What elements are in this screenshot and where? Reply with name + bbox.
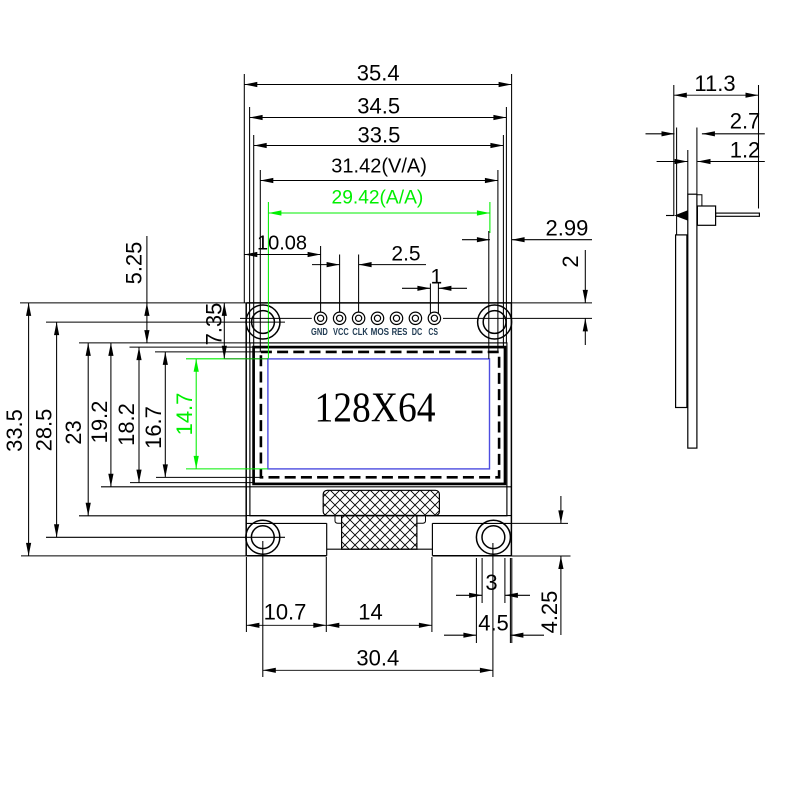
dimension 2.7: [646, 109, 765, 235]
dimension 7.35: [202, 303, 227, 359]
svg-text:18.2: 18.2: [114, 403, 139, 446]
svg-text:35.4: 35.4: [357, 61, 400, 86]
svg-text:MOS: MOS: [371, 327, 389, 338]
dimension 35.4: [244, 61, 511, 303]
dimension 14.7 green: [172, 359, 268, 469]
svg-text:128X64: 128X64: [315, 386, 436, 432]
dimension 4.5 pad diameter: [444, 558, 544, 643]
svg-text:7.35: 7.35: [202, 303, 227, 346]
slot right step: [417, 516, 426, 524]
svg-text:16.7: 16.7: [141, 406, 166, 449]
display glass outline (thick): [254, 347, 505, 484]
side view display module bar: [676, 235, 687, 408]
svg-text:14: 14: [358, 600, 382, 625]
pin labels: [311, 327, 438, 338]
svg-text:1: 1: [430, 266, 442, 289]
svg-text:DC: DC: [412, 327, 423, 338]
svg-text:GND: GND: [311, 327, 328, 338]
board top extension line left: [20, 302, 246, 304]
svg-text:5.25: 5.25: [122, 242, 147, 285]
dimension 14: [326, 557, 432, 632]
FPC connector wide block (hatched): [323, 490, 439, 515]
dimension 29.42 (A/A) green: [268, 187, 490, 359]
mounting hole bottom-left: [246, 520, 280, 554]
slot outline: [327, 523, 433, 555]
svg-text:2.7: 2.7: [730, 109, 761, 134]
mounting hole top-right: [478, 305, 512, 339]
pin hole GND: [314, 312, 326, 324]
svg-text:1.2: 1.2: [730, 138, 761, 163]
PCB board outline (front view): [246, 303, 511, 556]
svg-text:3: 3: [485, 570, 497, 595]
svg-text:14.7: 14.7: [172, 393, 197, 436]
dimension 33.5 height: [2, 303, 31, 556]
svg-text:31.42(V/A): 31.42(V/A): [331, 155, 427, 177]
svg-text:28.5: 28.5: [32, 409, 57, 452]
pin hole VCC: [333, 312, 345, 324]
dimension 1 pin width: [402, 266, 467, 314]
svg-text:30.4: 30.4: [356, 646, 399, 671]
dimension 4.25: [511, 496, 570, 635]
display dashed bezel rectangle: [261, 352, 499, 477]
svg-text:10.7: 10.7: [264, 600, 307, 625]
dimension 2.5 pin pitch: [312, 243, 426, 313]
pin hole MOS: [371, 312, 383, 324]
dimension 19.2: [87, 343, 246, 487]
side view pin: [716, 213, 760, 216]
svg-text:29.42(A/A): 29.42(A/A): [332, 187, 424, 208]
pin hole CS: [428, 312, 440, 324]
side view connector step: [697, 195, 702, 206]
svg-text:RES: RES: [392, 327, 408, 338]
svg-text:33.5: 33.5: [2, 409, 27, 452]
svg-text:33.5: 33.5: [357, 122, 400, 147]
svg-text:CS: CS: [428, 327, 438, 338]
dimension 2.99: [462, 215, 592, 242]
dimension 33.5 width: [254, 122, 504, 347]
mounting hole bottom-right: [476, 520, 510, 554]
board bottom step line: [246, 522, 511, 524]
svg-text:VCC: VCC: [333, 327, 349, 338]
pin hole DC: [409, 312, 421, 324]
dimension 16.7: [141, 352, 261, 478]
svg-text:4.25: 4.25: [537, 591, 562, 634]
FPC tail narrow block (hatched): [342, 516, 417, 550]
dimension 10.7: [246, 557, 326, 632]
pin hole CLK: [352, 312, 364, 324]
board surface line at connector: [246, 515, 511, 517]
mounting hole top-left: [246, 305, 280, 339]
dimension 1.2: [657, 138, 765, 195]
svg-text:2: 2: [558, 255, 583, 267]
svg-text:19.2: 19.2: [87, 401, 112, 444]
side view pin header plastic: [697, 206, 715, 225]
svg-text:34.5: 34.5: [357, 94, 400, 119]
svg-text:CLK: CLK: [352, 327, 368, 338]
pin hole RES: [390, 312, 402, 324]
board bottom extension line left: [21, 555, 246, 557]
svg-text:11.3: 11.3: [694, 71, 735, 96]
dimension 3 hole diameter: [456, 558, 530, 603]
dimension 10.08: [244, 233, 320, 313]
svg-text:10.08: 10.08: [257, 233, 307, 255]
dimension 23: [61, 343, 250, 516]
svg-text:23: 23: [61, 420, 86, 444]
dimension 18.2: [114, 347, 254, 483]
dimension 11.3: [674, 71, 759, 216]
dimension 30.4: [263, 541, 493, 677]
svg-text:4.5: 4.5: [478, 611, 509, 636]
dimension 31.42 (V/A): [260, 155, 498, 352]
dimension 34.5: [250, 94, 507, 343]
display metal frame outline: [250, 343, 507, 516]
pin row reference line left: [240, 317, 312, 319]
side view PCB bar: [688, 194, 697, 448]
side view pin solder tail: [674, 210, 688, 220]
svg-text:2.99: 2.99: [545, 215, 588, 240]
dimension 28.5: [32, 322, 286, 537]
display inner line: [246, 486, 511, 488]
active area blue rectangle: [268, 359, 490, 469]
svg-text:2.5: 2.5: [391, 243, 420, 266]
dimension 5.25: [122, 236, 150, 343]
slot left step: [335, 516, 342, 524]
dimension 2 right side: [443, 250, 592, 345]
